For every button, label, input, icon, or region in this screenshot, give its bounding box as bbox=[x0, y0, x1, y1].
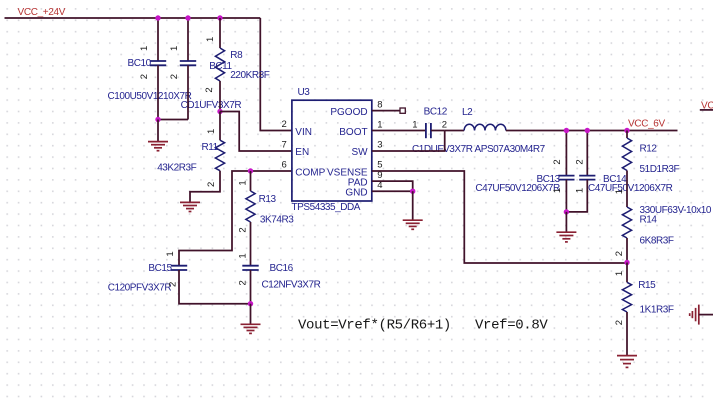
svg-text:3K74R3: 3K74R3 bbox=[260, 215, 294, 226]
svg-text:1: 1 bbox=[205, 37, 216, 42]
capacitor BC11 pin2 lead bbox=[187, 65, 189, 119]
svg-text:2: 2 bbox=[238, 280, 249, 285]
svg-text:R14: R14 bbox=[640, 215, 658, 226]
svg-text:U3: U3 bbox=[298, 87, 311, 98]
svg-text:7: 7 bbox=[282, 140, 287, 151]
svg-text:BC10: BC10 bbox=[128, 58, 152, 69]
junction R8 top bbox=[217, 15, 222, 20]
no-connect square on PGOOD bbox=[400, 108, 405, 113]
svg-text:Vref=0.8V: Vref=0.8V bbox=[475, 317, 548, 333]
svg-text:R11: R11 bbox=[202, 142, 219, 153]
svg-text:2: 2 bbox=[169, 74, 180, 79]
wire BC12 to SW junction bbox=[431, 130, 445, 132]
svg-text:2: 2 bbox=[282, 119, 287, 130]
wire right ground stub bbox=[699, 314, 713, 316]
capacitor BC15 bbox=[171, 265, 187, 267]
junction BC14 rail bbox=[585, 128, 590, 133]
resistor R12 bbox=[622, 138, 631, 171]
svg-text:2: 2 bbox=[552, 159, 563, 164]
svg-text:3: 3 bbox=[377, 140, 382, 151]
svg-text:C100U50V1210X7R: C100U50V1210X7R bbox=[108, 91, 192, 102]
svg-text:R15: R15 bbox=[638, 280, 656, 291]
capacitor BC13 pin2 lead bbox=[565, 131, 567, 176]
svg-text:1: 1 bbox=[238, 180, 249, 185]
svg-text:APS07A30M4R7: APS07A30M4R7 bbox=[475, 144, 546, 155]
svg-text:C120PFV3X7R: C120PFV3X7R bbox=[108, 283, 172, 294]
resistor R14 pin2 lead bbox=[626, 238, 628, 263]
svg-text:R13: R13 bbox=[259, 194, 277, 205]
ground right edge rotated bbox=[698, 305, 700, 325]
ground below R11 bbox=[180, 201, 200, 203]
svg-text:1: 1 bbox=[614, 271, 625, 276]
svg-text:R8: R8 bbox=[230, 50, 243, 61]
svg-text:1: 1 bbox=[614, 189, 625, 194]
svg-text:1: 1 bbox=[575, 188, 586, 193]
resistor R13 pin1 lead bbox=[250, 171, 252, 191]
op-amp U1 -- IC U3 TPS54335_DDA body bbox=[292, 100, 372, 201]
wire VCC_+24V rail bbox=[5, 17, 261, 19]
svg-text:2: 2 bbox=[139, 74, 150, 79]
junction BC11 top bbox=[185, 15, 190, 20]
junction VCC_6V rail R12 bbox=[624, 128, 629, 133]
svg-text:6: 6 bbox=[282, 160, 287, 171]
svg-text:220KR3F: 220KR3F bbox=[230, 70, 269, 81]
capacitor BC10 bbox=[150, 60, 166, 62]
svg-text:VIN: VIN bbox=[295, 127, 312, 138]
svg-text:BOOT: BOOT bbox=[339, 127, 367, 138]
svg-text:1: 1 bbox=[238, 253, 249, 258]
wire BC16 bottom lead bbox=[250, 270, 252, 304]
wire R12 to R14 bbox=[626, 171, 628, 208]
svg-text:2: 2 bbox=[238, 227, 249, 232]
wire L2 to VCC_6V rail bbox=[506, 130, 678, 132]
svg-text:43K2R3F: 43K2R3F bbox=[157, 162, 196, 173]
inductor L2 bbox=[464, 124, 506, 130]
ground below BC15-BC16 bbox=[250, 304, 252, 325]
capacitor BC12 bbox=[425, 123, 427, 138]
wire VIN branch from rail bbox=[260, 18, 292, 131]
ground below PAD-GND bbox=[412, 191, 414, 220]
capacitor BC16 bbox=[242, 265, 258, 267]
svg-text:2: 2 bbox=[614, 320, 625, 325]
resistor R11 pin2 lead bbox=[190, 171, 220, 202]
svg-text:CD1UFV3X7R: CD1UFV3X7R bbox=[181, 100, 242, 111]
svg-text:1: 1 bbox=[169, 46, 180, 51]
resistor R13 bbox=[246, 191, 255, 222]
resistor R8 pin1 lead bbox=[219, 18, 221, 48]
svg-text:BC12: BC12 bbox=[424, 106, 448, 117]
svg-text:51D1R3F: 51D1R3F bbox=[640, 164, 680, 175]
svg-text:C12NFV3X7R: C12NFV3X7R bbox=[262, 279, 321, 290]
resistor R13 pin2 lead to BC16 bbox=[250, 222, 252, 266]
resistor R12 pin1 lead bbox=[626, 131, 628, 139]
svg-text:L2: L2 bbox=[462, 107, 473, 118]
svg-text:C1DUFV3X7R: C1DUFV3X7R bbox=[412, 144, 473, 155]
ground below BC10 bbox=[157, 120, 159, 142]
junction BC15-BC16 ground node bbox=[248, 301, 253, 306]
svg-text:6K8R3F: 6K8R3F bbox=[640, 235, 674, 246]
resistor R8 pin2 lead bbox=[219, 81, 221, 112]
capacitor BC10 pin1 lead bbox=[157, 18, 159, 61]
svg-text:C47UF50V1206X7R: C47UF50V1206X7R bbox=[588, 183, 673, 194]
capacitor BC14 bbox=[579, 175, 595, 177]
svg-text:VCC_+24V: VCC_+24V bbox=[18, 7, 66, 18]
svg-text:BC15: BC15 bbox=[148, 263, 172, 274]
svg-text:1: 1 bbox=[165, 251, 176, 256]
junction PAD-GND bbox=[410, 189, 415, 194]
svg-text:2: 2 bbox=[614, 251, 625, 256]
svg-text:TPS54335_DDA: TPS54335_DDA bbox=[292, 202, 361, 213]
svg-text:VCC_6V: VCC_6V bbox=[628, 118, 665, 129]
resistor R11 bbox=[215, 140, 224, 171]
svg-text:C47UF50V1206X7R: C47UF50V1206X7R bbox=[475, 183, 560, 194]
capacitor BC14 pin2 lead bbox=[586, 131, 588, 176]
svg-text:SW: SW bbox=[351, 147, 368, 158]
capacitor BC13 pin1 lead bbox=[565, 180, 567, 212]
svg-text:EN: EN bbox=[295, 147, 309, 158]
resistor R15 pin1 lead bbox=[626, 263, 628, 283]
svg-text:GND: GND bbox=[345, 187, 367, 198]
capacitor BC10 pin2 lead bbox=[157, 65, 159, 119]
wire GND pin 4 stub bbox=[372, 190, 413, 192]
resistor R14 bbox=[622, 207, 631, 238]
svg-text:1: 1 bbox=[412, 120, 417, 131]
svg-text:2: 2 bbox=[204, 87, 215, 92]
junction R14-R15-VSENSE bbox=[624, 260, 629, 265]
wire top-right stub bbox=[700, 109, 713, 111]
svg-text:1: 1 bbox=[139, 46, 150, 51]
svg-text:PGOOD: PGOOD bbox=[330, 107, 367, 118]
svg-text:2: 2 bbox=[442, 120, 447, 131]
resistor R11 pin1 lead bbox=[219, 112, 221, 141]
svg-text:2: 2 bbox=[167, 282, 178, 287]
wire PGOOD pin 8 stub bbox=[372, 110, 400, 112]
resistor R15 pin2 lead bbox=[626, 312, 628, 356]
wire PAD pin 9 stub bbox=[372, 181, 413, 191]
wire SW riser bbox=[372, 131, 445, 152]
capacitor BC13 bbox=[558, 175, 574, 177]
junction BC13 rail bbox=[564, 128, 569, 133]
wire BOOT to BC12 bbox=[372, 130, 426, 132]
wire BC15 bottom to ground node bbox=[179, 270, 251, 304]
wire SW to L2 bbox=[445, 130, 464, 132]
svg-text:Vout=Vref*(R5/R6+1): Vout=Vref*(R5/R6+1) bbox=[298, 317, 451, 333]
ground below R15 bbox=[617, 355, 637, 357]
resistor R8 bbox=[215, 48, 224, 81]
svg-text:1: 1 bbox=[377, 120, 382, 131]
wire VSENSE feedback bbox=[372, 171, 627, 263]
wire EN branch bbox=[220, 112, 292, 152]
ground below BC13-BC14 bbox=[565, 212, 567, 232]
resistor R15 bbox=[622, 282, 631, 312]
svg-text:1: 1 bbox=[552, 188, 563, 193]
svg-text:1K1R3F: 1K1R3F bbox=[640, 305, 674, 316]
wire COMP branch to BC15 bbox=[179, 171, 292, 266]
svg-text:2: 2 bbox=[575, 159, 586, 164]
wire BC10-BC11 bottom join bbox=[158, 119, 188, 121]
svg-text:1: 1 bbox=[206, 129, 217, 134]
svg-text:COMP: COMP bbox=[295, 167, 325, 178]
svg-text:R12: R12 bbox=[640, 143, 658, 154]
capacitor BC11 pin1 lead bbox=[187, 18, 189, 61]
junction BC10 top bbox=[155, 15, 160, 20]
capacitor BC11 bbox=[180, 60, 196, 62]
junction BC10-BC11 bottom bbox=[155, 117, 160, 122]
capacitor BC14 pin1 lead bbox=[566, 180, 587, 212]
svg-text:BC16: BC16 bbox=[270, 263, 294, 274]
junction BC13 ground node bbox=[564, 209, 569, 214]
junction COMP-R13 bbox=[248, 168, 253, 173]
svg-text:8: 8 bbox=[377, 99, 382, 110]
junction R8-R11-EN node bbox=[217, 109, 222, 114]
svg-text:2: 2 bbox=[206, 182, 217, 187]
